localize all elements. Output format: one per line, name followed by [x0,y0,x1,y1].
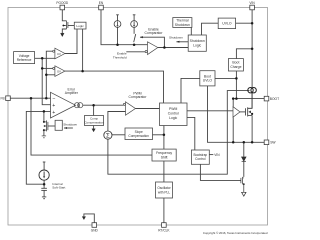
wire FB branch to OV comparator [46,74,55,76]
pin BOOT [264,96,279,101]
node SW / diode [243,141,246,144]
svg-text:UV: UV [57,52,61,56]
box frequency shift [152,149,176,161]
node BOOT / driver [232,97,235,100]
arrowhead hysteresis control [140,36,143,38]
svg-text:Shutdown: Shutdown [169,36,183,40]
svg-text:EN: EN [99,1,104,5]
comparator UV [53,48,65,59]
wire PWM comparator output [135,108,159,110]
svg-text:Comparator: Comparator [129,95,148,99]
svg-text:Charge: Charge [230,65,241,69]
wire boot UVLO right to BOOT net [215,77,236,79]
wire UV comparator output to logic [65,29,77,54]
ground below PGOOD FET [61,33,65,36]
node soft start / discharge FET [43,110,46,113]
wire shutdown box to discharge FET gate [48,125,55,127]
pin SW [264,140,276,145]
wire GND pin to internal ground [84,214,94,223]
svg-text:OV: OV [57,70,61,74]
wire discharge FET source to ground [43,130,45,136]
transistor Q3 SW pulldown [241,177,245,192]
svg-text:+: + [52,110,55,116]
capacitor C1 soft start [41,187,47,189]
label enable comparator [145,28,164,36]
svg-text:Logic: Logic [76,24,84,28]
transistor M1 high side power FET [240,93,253,143]
node SW / FET source [251,141,254,144]
wire slope compensation to summing node [112,134,125,136]
current source I2 hysteresis [131,21,138,28]
wire PGOOD FET source to ground [62,29,66,33]
svg-text:FB: FB [1,96,5,100]
wire shutdown arrow into driver box [64,127,73,129]
wire soft start current source stem [43,162,45,170]
wire FB down to frequency shift [31,98,152,155]
node reference / OV branch [41,67,44,70]
wire driver return to SW [232,117,234,142]
comparator enable [145,42,158,55]
node soft start / capacitor [43,183,46,186]
box voltage reference [14,52,35,64]
ground below compensation [92,129,95,132]
node FB / UV OV bus [45,97,48,100]
svg-text:Control: Control [195,157,206,161]
svg-text:Copyright © 2016, Texas Instru: Copyright © 2016, Texas Instruments Inco… [203,231,268,235]
svg-text:Comparator: Comparator [145,31,164,35]
ground below soft start capacitor [42,196,46,198]
wire PWM logic to frequency shift / oscillator column [163,126,165,150]
svg-text:Reference: Reference [17,58,32,62]
wire FB pin to error amplifier [10,97,51,99]
wire driver boot supply [232,99,234,107]
svg-text:PGOOD: PGOOD [56,1,69,5]
gm output stage of error amplifier [74,103,82,108]
svg-text:Logic: Logic [193,43,201,47]
wire compensation ground stem [93,126,95,129]
comparator OV [53,66,65,77]
pin EN [99,1,104,10]
wire PWM logic to gate driver [187,110,233,112]
label internal soft-start [52,182,65,190]
wire summing node to PWM comparator [108,112,126,132]
svg-text:Compensation: Compensation [84,121,104,125]
svg-text:Soft-Start: Soft-Start [52,186,65,190]
wire PGOOD pin to FET [62,10,66,21]
node FB bus / OV branch [45,74,48,77]
box slope compensation [125,128,153,140]
svg-text:BOOT: BOOT [270,97,279,101]
svg-text:UVLO: UVLO [222,22,232,26]
wire OV comparator output to PWM control logic [65,71,164,103]
label error amplifier [65,88,79,96]
wire enable threshold stub [126,51,145,53]
box logic (PGOOD) [74,22,86,29]
wire enable comparator output to shutdown logic [158,47,188,49]
wire current source 1 stem [117,15,119,21]
wire current source 1 to EN rail [117,27,119,44]
node VIN / boot charge [251,48,254,51]
svg-text:Σ: Σ [106,133,110,140]
arrowhead shutdown signal out [176,41,179,43]
box bootstrap control [191,150,209,164]
box thermal shutdown [173,18,192,28]
comparator PWM [123,102,135,115]
wire COMP node down to compensation [93,105,95,115]
node FB / frequency shift branch [30,97,33,100]
arrowhead shutdown into driver box [64,127,67,129]
wire current source 2 stem [133,15,135,21]
current sense element [248,88,257,93]
node EN / switch [133,43,136,46]
wire EN pin down and across to enable comparator [101,10,148,45]
wire frequency shift to oscillator [163,161,165,182]
wire soft start node to discharge FET [43,111,45,122]
svg-text:VIN: VIN [214,153,220,157]
current source I1 enable pullup [114,21,121,28]
transistor Q1 PGOOD pulldown [62,21,68,29]
ground below discharge FET [42,136,46,138]
outer frame [8,8,268,226]
node enable comparator output [163,46,166,49]
node EN / current source 1 [116,43,119,46]
svg-text:+: + [52,103,55,109]
box boot charge [228,59,243,71]
wire reference branch to OV comparator [42,67,53,69]
svg-text:Compensation: Compensation [128,134,149,138]
gate driver U1 [233,107,240,118]
box shutdown driver [55,120,62,130]
box boot UVLO [200,71,215,86]
svg-text:−: − [52,97,55,103]
wire bootstrap control VIN stub [209,154,213,156]
svg-text:with PLL: with PLL [158,190,170,194]
wire current source 2 to switch [133,27,135,33]
pin GND [91,223,99,233]
svg-text:Shutdown: Shutdown [175,23,190,27]
svg-text:Logic: Logic [169,116,177,120]
wire VIN tap to boot charge [236,49,252,59]
svg-text:SW: SW [270,141,276,145]
svg-text:UVLO: UVLO [203,79,213,83]
wire thermal shutdown to shutdown logic [190,27,192,35]
wire oscillator branch to slope compensation [153,134,164,136]
transistor Q2 soft start discharge [43,120,48,131]
wire SW rail to diode D1 [243,142,245,157]
svg-text:Control: Control [168,112,179,116]
wire boot UVLO left to PWM control logic [181,78,200,103]
node OV output / logic branch [81,70,84,73]
svg-text:VIN: VIN [249,1,255,5]
wire VIN rail [251,10,253,88]
wire FB bus up to UV comparator [46,51,52,98]
op-amp error amplifier [51,92,76,118]
node SW / driver return [232,141,235,144]
box oscillator with PLL [156,182,173,198]
label PWM comparator [129,91,148,99]
svg-text:RT/CLK: RT/CLK [158,229,170,233]
node VIN / UVLO [251,22,254,25]
wire bootstrap control to pulldown gate [200,164,241,180]
wire hysteresis feedback to switch [140,37,164,47]
node oscillator / slope branch [163,134,166,137]
pin PGOOD [56,1,69,10]
switch S1 blade [134,34,136,42]
ground arrow at GND pin [82,217,85,220]
wire voltage reference output [35,57,55,59]
svg-text:Threshold: Threshold [113,55,127,59]
pin RT/CLK [158,223,170,233]
svg-text:Shift: Shift [161,155,168,159]
pin VIN [249,1,255,10]
wire diode to pulldown FET drain [243,161,245,177]
box comp compensation [84,116,104,126]
svg-text:GND: GND [91,229,99,233]
wire current sense to summing node [108,91,250,175]
svg-text:Shutdown: Shutdown [63,122,77,126]
wire logic to PGOOD FET gate [68,25,74,27]
ground below SW pulldown [242,192,246,196]
wire soft start to capacitor [43,180,45,188]
wire boot UVLO down to SW rail and SW pin [208,86,265,142]
wire soft start to error amp plus input [26,111,50,184]
node reference / bus [41,57,44,60]
pin FB [1,96,11,101]
box PWM control logic [160,103,188,126]
svg-text:PWM: PWM [169,107,177,111]
wire oscillator to RT/CLK pin [163,198,165,223]
wire PWM logic to bootstrap control [187,117,195,150]
svg-text:Amplifier: Amplifier [65,91,79,95]
node COMP / compensation [92,104,95,107]
box UVLO [218,18,235,29]
node boot UVLO net [235,77,238,80]
wire COMP node to PWM comparator [83,104,124,106]
wire shutdown signal out [176,41,188,43]
wire BOOT net to BOOT pin [233,98,264,100]
diode D1 SW clamp [242,157,246,161]
wire reference bus down to error amp plus input [42,58,50,104]
node BOOT / boot charge [235,97,238,100]
current source soft start [39,170,49,180]
wire OV branch up to logic [82,29,84,71]
wire boot charge down to BOOT net [235,71,237,99]
summing node sigma [104,131,112,140]
label enable threshold [113,52,127,60]
wire UVLO to VIN rail [236,22,253,24]
box shutdown logic [188,35,206,51]
wire UVLO to shutdown logic [202,23,219,35]
